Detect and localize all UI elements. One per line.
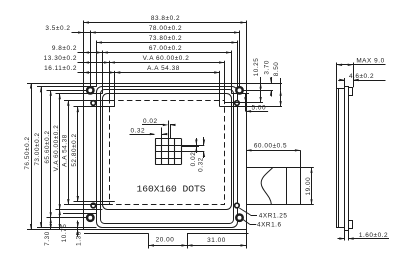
right extension line window top	[232, 93, 250, 95]
svg-text:0.02: 0.02	[143, 118, 158, 125]
svg-text:7.30: 7.30	[44, 231, 51, 246]
side view glass/frame block	[337, 89, 345, 228]
top extension line AA left	[114, 71, 116, 107]
svg-text:73.80±0.2: 73.80±0.2	[149, 35, 182, 42]
svg-text:76.50±0.2: 76.50±0.2	[24, 136, 31, 169]
dimension 78.00±0.2 row	[84, 32, 91, 34]
right extension line VA top	[225, 102, 264, 104]
small hole top-left 4XR1.25	[91, 101, 96, 106]
dimension 8.50	[280, 78, 282, 90]
top extension line PCB right	[246, 21, 248, 84]
small hole top-right 4XR1.25	[235, 101, 240, 106]
dimension 65.60±0.2 column	[50, 90, 52, 217]
bottom extension PCB right	[246, 230, 248, 249]
glass edge outline (rounded)	[101, 90, 234, 224]
svg-text:3.5±0.2: 3.5±0.2	[45, 25, 70, 32]
dimension 9.8±0.2 span	[84, 52, 103, 54]
dimension V.A 60.00±0.2 row	[110, 62, 225, 64]
svg-text:20.00: 20.00	[156, 237, 175, 244]
dimension 3.5±0.2 leader	[72, 32, 84, 34]
svg-text:A.A 54.38: A.A 54.38	[62, 134, 69, 167]
top extension line hole-center left	[90, 31, 92, 87]
grid dim 0.32 top	[130, 134, 155, 136]
svg-text:9.8±0.2: 9.8±0.2	[52, 45, 77, 52]
mounting hole top-right 4XR1.6	[236, 87, 242, 93]
grid dim 0.02 right	[196, 138, 198, 145]
dimension V.A 60.00±0.2 column	[59, 94, 61, 210]
svg-text:4XR1.6: 4XR1.6	[257, 222, 282, 229]
dimension 20.00	[149, 245, 188, 247]
svg-text:160X160 DOTS: 160X160 DOTS	[136, 183, 205, 194]
dimension 16.11±0.2 leader	[78, 72, 84, 74]
bottom line under pcb left segment	[84, 233, 149, 235]
dimension 19.00	[300, 167, 313, 169]
svg-text:65.60±0.2: 65.60±0.2	[44, 130, 51, 163]
dimension 73.80±0.2 row	[97, 42, 238, 44]
svg-text:MAX 9.0: MAX 9.0	[356, 58, 384, 65]
connector break squiggle	[261, 168, 272, 204]
grid dim extension right	[181, 145, 204, 147]
mounting hole bottom-right 4XR1.6	[236, 215, 242, 221]
svg-text:78.00±0.2: 78.00±0.2	[149, 25, 182, 32]
svg-text:1.60±0.2: 1.60±0.2	[359, 232, 388, 239]
dot matrix grid detail	[155, 139, 157, 165]
dimension 13.30±0.2 leader	[78, 62, 84, 64]
svg-text:0.02: 0.02	[190, 152, 197, 167]
svg-text:67.00±0.2: 67.00±0.2	[149, 45, 182, 52]
dimension A.A 54.38 column	[68, 100, 70, 204]
svg-text:V.A 60.00±0.2: V.A 60.00±0.2	[143, 55, 190, 62]
svg-text:0.32: 0.32	[197, 157, 204, 172]
svg-text:13.30±0.2: 13.30±0.2	[44, 55, 77, 62]
svg-text:4.6±0.2: 4.6±0.2	[349, 73, 374, 80]
side view bottom tab	[349, 221, 353, 229]
bottom extension FPC left	[148, 233, 150, 248]
side view PCB slab	[345, 87, 349, 231]
top extension line VA right	[224, 61, 226, 100]
connector inner line	[286, 167, 288, 204]
top extension line AA right	[219, 71, 221, 107]
small hole bottom-right 4XR1.25	[235, 203, 240, 208]
top extension line VA left	[109, 61, 111, 100]
small hole bottom-left 4XR1.25	[91, 203, 96, 208]
dimension 4.6±0.2	[344, 78, 346, 86]
svg-text:3.70: 3.70	[264, 60, 271, 75]
right extension line hole line	[243, 90, 273, 92]
svg-text:0.32: 0.32	[130, 127, 145, 134]
dimension 52.80±0.2 column	[77, 107, 79, 202]
leader 4XR1.6	[243, 220, 250, 225]
dimension 7.30 chain	[50, 218, 52, 230]
mounting hole top-left 4XR1.6	[87, 87, 93, 93]
top extension line frame left	[96, 41, 98, 87]
dimension 10.75 chain	[59, 210, 61, 230]
side view top tab	[349, 88, 353, 96]
svg-text:19.00: 19.00	[305, 177, 312, 196]
top extension line PCB left	[83, 21, 85, 84]
leader 4XR1.25	[239, 208, 250, 215]
bezel window opening (rounded)	[103, 94, 232, 210]
PCB outline rectangle	[84, 84, 247, 230]
metal frame outline (rounded)	[97, 87, 238, 228]
top extension line window right	[231, 51, 233, 94]
bottom extension FPC right	[187, 233, 189, 248]
svg-text:60.00±0.5: 60.00±0.5	[254, 143, 287, 150]
right extension line AA top	[220, 106, 282, 108]
svg-text:V.A 60.00±0.2: V.A 60.00±0.2	[53, 125, 60, 172]
dimension 3.70	[271, 77, 273, 83]
svg-text:10.75: 10.75	[61, 224, 68, 243]
svg-text:73.00±0.2: 73.00±0.2	[34, 132, 41, 165]
dimension 1.60±0.2	[344, 231, 346, 241]
dimension 9.8±0.2 leader	[78, 52, 84, 54]
svg-text:31.00: 31.00	[207, 237, 226, 244]
left extension lines	[27, 83, 84, 85]
svg-text:83.8±0.2: 83.8±0.2	[151, 15, 180, 22]
dimension 67.00±0.2 row	[102, 52, 231, 54]
svg-text:16.11±0.2: 16.11±0.2	[44, 65, 77, 72]
dimension 31.00	[187, 245, 246, 247]
svg-text:4XR1.25: 4XR1.25	[259, 212, 288, 219]
dimension 73.00±0.2 column	[41, 87, 43, 228]
svg-text:A.A 54.38: A.A 54.38	[147, 65, 180, 72]
top extension line frame right	[237, 41, 239, 87]
viewing area V.A dashed rectangle	[110, 101, 225, 205]
grid dim 0.02 top	[142, 124, 164, 126]
grid dim 0.32 right	[203, 137, 205, 145]
mounting hole bottom-left 4XR1.6	[87, 215, 93, 221]
svg-text:1.35: 1.35	[76, 231, 83, 246]
dimension A.A 54.38 row	[115, 72, 220, 74]
side view inner line	[338, 88, 340, 227]
dimension 13.30±0.2 span	[84, 62, 110, 64]
dimension 5.00 with bent leader	[245, 94, 247, 103]
dimension 60.00±0.5	[246, 150, 248, 167]
svg-text:52.80±0.2: 52.80±0.2	[71, 133, 78, 166]
bottom line under pcb right segment	[187, 233, 249, 235]
dimension MAX 9.0	[336, 63, 338, 89]
dimension 16.11±0.2 span	[84, 72, 115, 74]
svg-text:10.25: 10.25	[253, 58, 260, 77]
connector detail box	[247, 168, 301, 205]
dimension 10.25	[260, 77, 262, 83]
right extension line PCB top	[246, 83, 282, 85]
dimension 76.50±0.2 column	[31, 83, 33, 230]
svg-text:8.50: 8.50	[273, 62, 280, 77]
svg-text:5.00: 5.00	[251, 104, 266, 111]
top extension line window left	[102, 51, 104, 94]
dimension 1.35 chain outside arrows	[77, 228, 79, 230]
top extension line hole-center right	[239, 31, 241, 87]
dimension 83.8±0.2 row	[84, 22, 247, 24]
